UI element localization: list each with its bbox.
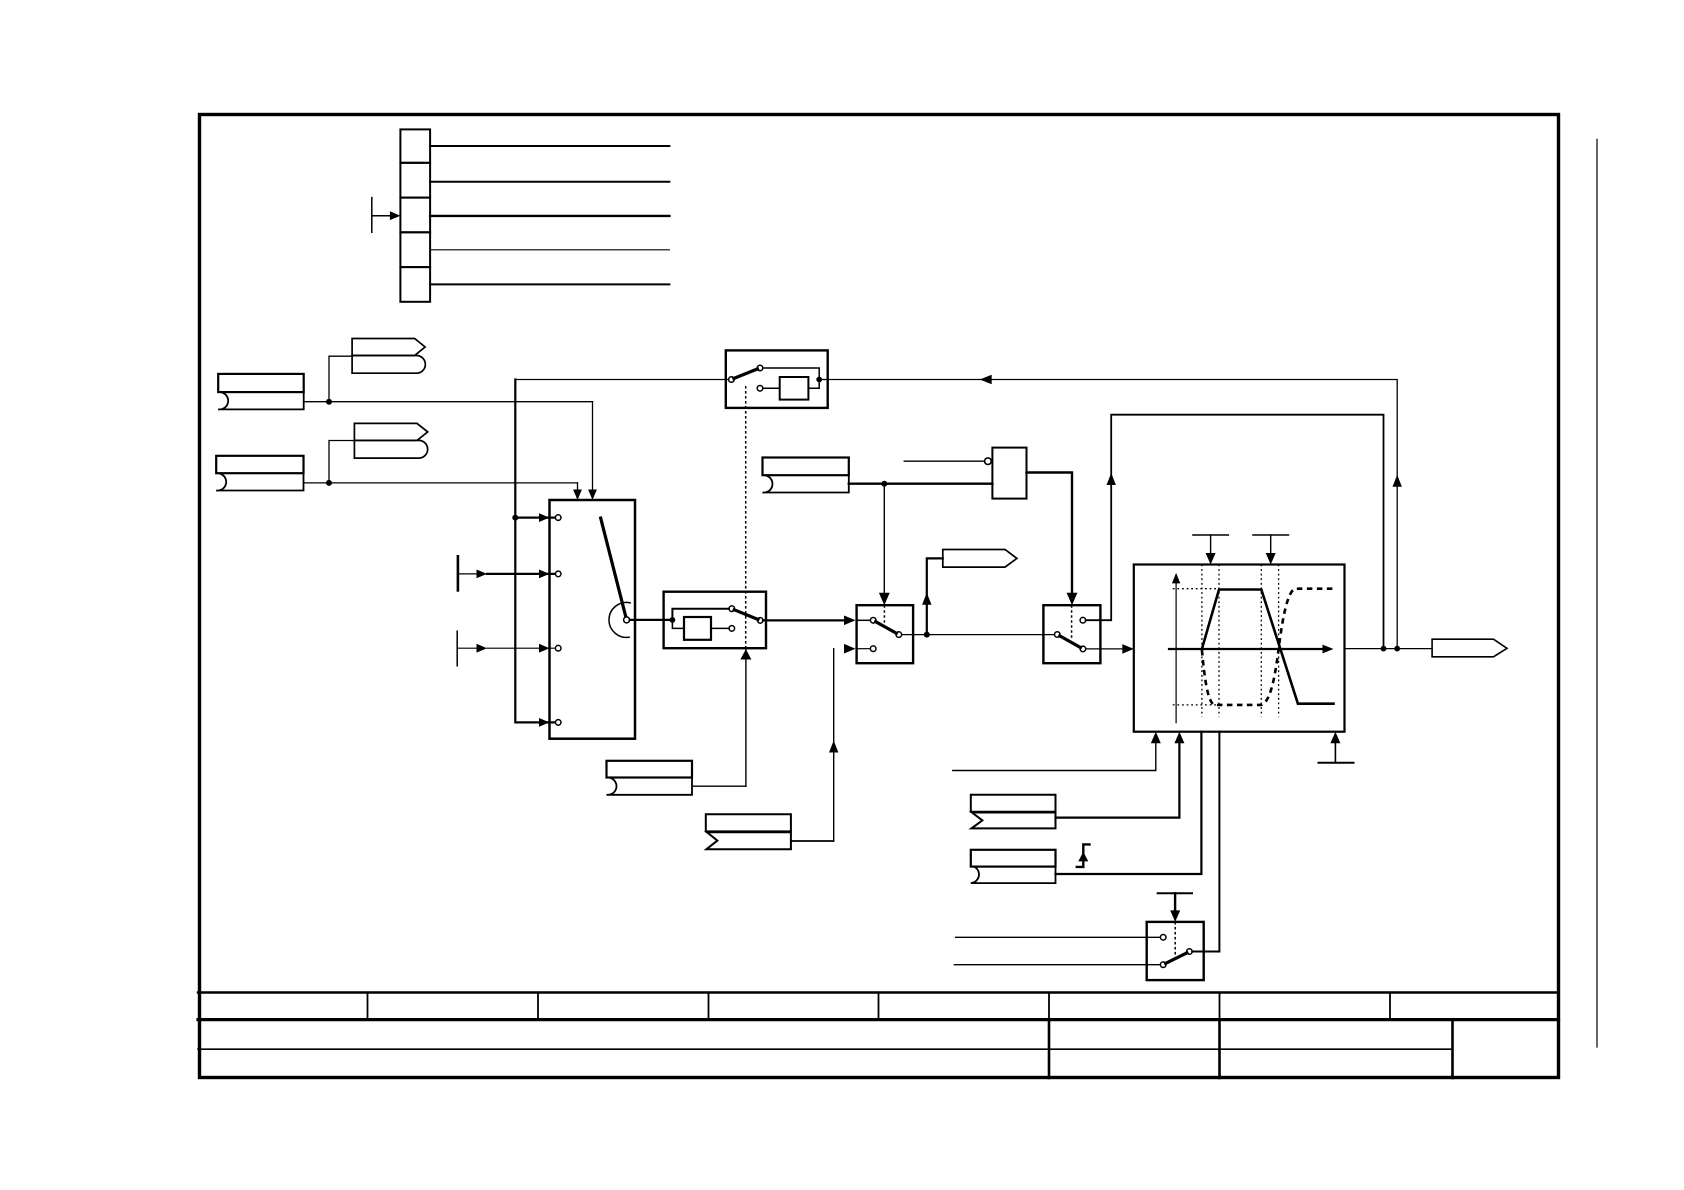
B upper contact circle — [1080, 617, 1086, 623]
wire A output — [902, 634, 1055, 636]
U3 wire block to node — [808, 380, 819, 389]
NOT gate G1 — [992, 448, 1026, 499]
node output junction 1 — [1381, 646, 1387, 652]
U1 input circle 2 — [555, 571, 561, 577]
terminal T2 — [457, 631, 555, 666]
U2 wire to upper contact — [672, 609, 729, 620]
wire from stack box1 — [430, 145, 669, 147]
RFG ramp-down time input — [1253, 535, 1289, 565]
B control dashed — [1071, 605, 1073, 638]
wire U3 output to bus — [515, 379, 728, 381]
U1 pivot arc — [609, 602, 630, 637]
wire A output up to flag — [927, 558, 943, 634]
arrowhead bus into U1 input1 — [539, 513, 550, 522]
rising edge symbol — [1077, 844, 1090, 867]
RFG dotted vertical t1 — [1201, 565, 1203, 717]
U2 wire to delay block — [672, 620, 684, 629]
arrowhead enable up — [1151, 732, 1161, 744]
wire C lower input (free end) — [954, 964, 1160, 966]
wire B7 up to RFG — [1056, 732, 1202, 874]
wire P4 — [692, 785, 746, 787]
RFG dotted vertical t2 — [1218, 565, 1220, 717]
RFG reset input (bottom right T) — [1319, 732, 1354, 763]
wire P5 up to A lower input — [792, 649, 834, 841]
output connector banner — [1432, 639, 1507, 657]
U3 upper wire — [763, 368, 819, 380]
output wire RFG — [1345, 648, 1433, 650]
arrowhead P4 into U2 — [740, 649, 751, 660]
title block column dividers row1 — [368, 993, 1391, 1020]
A control dashed — [883, 605, 885, 624]
wire P3 to NOT gate — [849, 483, 993, 485]
U3 output circle — [729, 377, 735, 383]
setting switch A — [857, 605, 914, 663]
feedback bus wire — [515, 380, 555, 723]
arrowhead bypass up — [1107, 473, 1116, 485]
arrowhead feedback left — [980, 375, 992, 384]
arrowhead feedback up — [1393, 475, 1402, 487]
U3 lower contact circle — [757, 386, 763, 392]
wire G1 upper input — [904, 460, 984, 462]
U2 lever — [734, 610, 758, 620]
C output circle — [1187, 949, 1193, 955]
wire P5 — [791, 840, 834, 842]
wire B6 up to RFG — [1056, 740, 1180, 818]
terminal bar input to stack box3 — [372, 198, 401, 233]
wire G1 output to switch B — [1027, 473, 1073, 597]
wire P4 up into U2 — [745, 648, 747, 786]
node bus junction — [512, 515, 518, 521]
U2 wire block to lower contact — [711, 627, 729, 629]
U1 pivot circle — [624, 617, 630, 623]
title block row line 1 — [198, 991, 1559, 993]
wire setpoint enable (free end) — [953, 740, 1156, 771]
node P2 junction — [326, 480, 332, 486]
A lower contact circle — [870, 646, 876, 652]
wire from stack box3 — [430, 215, 669, 217]
wire P2 to switch — [304, 441, 578, 491]
border frame — [200, 115, 1559, 1078]
binector P5 (zigzag notch) — [706, 814, 791, 849]
node A output junction — [924, 632, 930, 638]
RFG dashed S curve — [1202, 589, 1334, 705]
wire P3 down to switch A — [883, 484, 885, 597]
wire C output up to RFG — [1192, 732, 1219, 952]
A wire input upper — [857, 619, 871, 621]
arrowhead into switch B top — [1067, 593, 1078, 606]
B output circle — [1080, 646, 1086, 652]
wire C upper input (free end) — [956, 936, 1161, 938]
C control T input — [1158, 893, 1192, 922]
arrowhead into A upper — [844, 616, 856, 626]
RFG dotted vertical t4 — [1278, 565, 1280, 717]
connector flag F3 — [943, 550, 1017, 568]
wire B output to ramp — [1086, 648, 1124, 650]
A lever — [876, 622, 897, 634]
feedback wire top — [828, 380, 1397, 649]
wire from stack box4 — [430, 249, 669, 251]
title block row line 3 — [198, 1048, 1453, 1050]
C lever — [1166, 953, 1187, 963]
U2 control dashed line — [745, 386, 747, 648]
node P1 junction — [326, 399, 332, 405]
parameter P1 (rounded notch) — [218, 374, 304, 410]
connector flag F2 — [354, 423, 427, 458]
arrowhead into A lower — [844, 644, 856, 654]
wire from stack box5 — [430, 283, 669, 285]
wire B upper to bypass loop — [1086, 415, 1384, 649]
U2 lower contact circle — [729, 626, 735, 632]
connector flag F1 — [352, 339, 425, 374]
wire bus to U1 input1 — [515, 516, 555, 518]
C lower contact circle — [1160, 962, 1166, 968]
wire from stack box2 — [430, 181, 669, 183]
U3 smoothing block — [780, 377, 809, 400]
U3 through wire — [819, 379, 828, 381]
A upper contact circle — [870, 618, 876, 624]
title block row line 2 (thick) — [198, 1018, 1559, 1021]
parameter P2 (rounded notch) — [216, 456, 303, 491]
parameter P4 (rounded notch) — [607, 761, 693, 795]
RFG x axis — [1169, 645, 1334, 654]
ramp function generator RFG — [1134, 565, 1345, 732]
C control dashed — [1174, 922, 1176, 958]
bypass switch U2 — [664, 592, 766, 649]
binector B6 (zigzag notch) — [971, 795, 1056, 829]
wire P1 to switch — [304, 356, 593, 490]
wire U1 output — [630, 619, 673, 621]
U1 input circle 3 — [555, 645, 561, 651]
RFG trapezoid curve — [1202, 590, 1334, 704]
RFG ramp-up time input — [1193, 535, 1229, 565]
B input circle — [1055, 632, 1061, 638]
U3 lever — [734, 369, 758, 378]
U2 delay block — [684, 617, 711, 640]
B lever — [1060, 636, 1081, 648]
arrowhead P2 down into switch — [573, 490, 582, 501]
terminal strip stack X1 — [400, 129, 430, 301]
A wire input lower — [857, 648, 871, 650]
A output circle — [896, 632, 902, 638]
U3 node — [816, 377, 822, 383]
U2 node input — [670, 617, 676, 623]
arrowhead bus into U1 input4 — [539, 718, 550, 727]
selector switch U1 (5-pos) — [550, 500, 636, 739]
parameter B7 (rounded notch) — [971, 850, 1056, 883]
C upper contact circle — [1160, 935, 1166, 941]
RFG dotted level low — [1173, 704, 1219, 706]
wire U2 output to A — [763, 619, 845, 621]
delay bypass switch U3 (top) — [726, 350, 828, 408]
speed limiter switch C (bottom) — [1147, 922, 1204, 980]
RFG dotted level high — [1173, 588, 1219, 590]
arrowhead P5 up — [829, 741, 838, 753]
RFG y axis — [1172, 573, 1180, 723]
RFG dotted vertical t3 — [1260, 565, 1262, 717]
U3 upper contact circle — [757, 365, 763, 371]
G1 inversion bubble — [985, 458, 992, 465]
arrowhead P1 down into switch — [588, 490, 597, 501]
parameter P3 (rounded notch) — [763, 458, 849, 493]
U2 upper contact circle — [729, 606, 735, 612]
arrowhead into switch A top — [879, 593, 890, 606]
U1 input circle 4 — [555, 720, 561, 726]
arrowhead into ramp — [1122, 644, 1134, 654]
page edge mark — [1596, 139, 1598, 1047]
ramp bypass switch B — [1043, 605, 1100, 663]
arrowhead A up — [922, 593, 931, 605]
node P3 junction — [881, 481, 887, 487]
U2 output circle — [757, 618, 763, 624]
title block column dividers rows 2-3 — [1049, 1020, 1453, 1078]
node output junction 2 — [1394, 646, 1400, 652]
terminal T1 — [458, 556, 555, 590]
U1 lever — [601, 518, 627, 620]
arrowhead B6 up — [1174, 732, 1184, 744]
U1 input circle 1 — [555, 515, 561, 521]
U3 wire to smoothing block — [763, 387, 780, 389]
